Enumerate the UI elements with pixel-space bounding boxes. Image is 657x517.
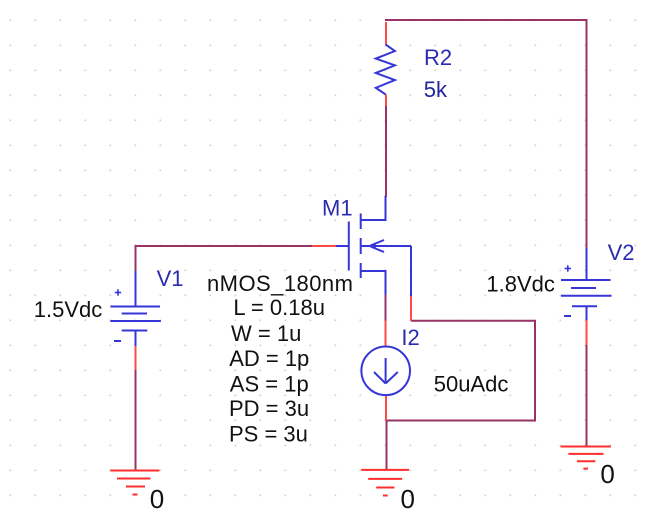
svg-text:0: 0 (401, 484, 415, 514)
pin I2 bottom (385, 396, 387, 421)
pin I2 top (385, 321, 387, 346)
svg-text:AS = 1p: AS = 1p (230, 371, 309, 396)
svg-text:0: 0 (150, 484, 164, 514)
svg-text:50uAdc: 50uAdc (434, 371, 509, 396)
svg-text:1.8Vdc: 1.8Vdc (486, 272, 555, 297)
wire bulk loop (M1 bulk to I2 bottom node) (386, 321, 535, 421)
svg-text:W = 1u: W = 1u (231, 321, 301, 346)
pin R2 bottom (385, 95, 387, 107)
wire I2 bottom to ground (386, 420, 388, 469)
pin V1 minus (135, 346, 137, 370)
svg-text:PS = 3u: PS = 3u (229, 421, 308, 446)
svg-text:AD = 1p: AD = 1p (229, 346, 309, 371)
wire V1 top vertical (135, 245, 137, 271)
wire M1 source to I2 (385, 295, 387, 321)
wire V1 bottom to ground (135, 370, 137, 470)
pin M1 gate (312, 245, 336, 247)
wire gate horizontal (V1 to M1 gate) (135, 245, 313, 247)
svg-text:PD = 3u: PD = 3u (229, 396, 309, 421)
svg-text:L = 0.18u: L = 0.18u (233, 295, 325, 320)
svg-text:V1: V1 (157, 266, 184, 291)
wire R2 bottom to M1 drain (385, 106, 387, 197)
wire right vertical (top to V2) (586, 19, 588, 248)
voltage source V2 (561, 248, 612, 320)
svg-text:1.5Vdc: 1.5Vdc (34, 297, 103, 322)
svg-text:V2: V2 (608, 240, 635, 265)
current source I2 (361, 347, 410, 396)
svg-text:R2: R2 (424, 45, 452, 70)
ground (V2) (561, 447, 611, 469)
svg-text:M1: M1 (322, 196, 353, 221)
pin V2 minus (586, 320, 588, 345)
wire V2 bottom to ground (586, 345, 588, 446)
ground (V1) (110, 471, 159, 495)
svg-text:I2: I2 (401, 325, 419, 350)
svg-text:0: 0 (600, 459, 614, 489)
svg-text:nMOS_180nm: nMOS_180nm (207, 271, 353, 296)
pin R2 top (385, 22, 387, 45)
voltage source V1 (110, 271, 160, 346)
ground (I2) (361, 470, 409, 496)
svg-text:5k: 5k (424, 77, 448, 102)
pin M1 bulk (410, 296, 412, 321)
resistor R2 (376, 45, 395, 95)
wire top horizontal (R2 top to V2 top) (385, 19, 588, 21)
transistor M1 (nMOS) (336, 196, 411, 296)
